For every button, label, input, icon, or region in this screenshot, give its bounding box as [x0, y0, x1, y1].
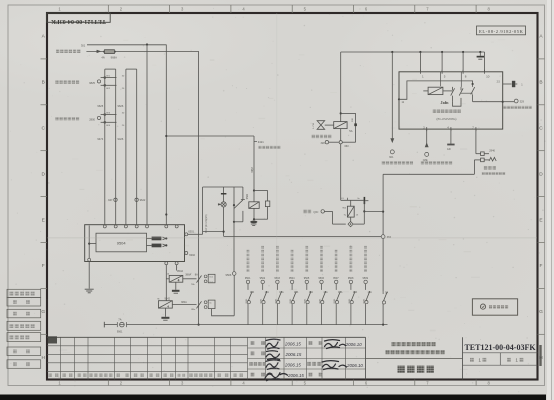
svg-text:2006.10: 2006.10 — [346, 363, 363, 368]
svg-text:9582: 9582 — [246, 193, 249, 199]
inspection stamp box — [472, 299, 517, 315]
company name box — [366, 337, 463, 379]
svg-text:3421: 3421 — [258, 140, 264, 144]
relay K1 contact with terminal box — [183, 274, 215, 286]
relay K3 coil (brake warning) — [246, 136, 259, 208]
svg-text:9561: 9561 — [261, 298, 263, 304]
terminal QZE with up arrow (program run signal) — [421, 129, 452, 164]
wire U2 pin7 to buzzer — [476, 129, 481, 154]
svg-text:QIC: QIC — [313, 210, 318, 214]
wire vigilance loop to terminal 362 riser — [363, 210, 383, 212]
U2 bottom pins 3 4 7 — [423, 125, 476, 131]
svg-text:D: D — [539, 171, 543, 177]
signature table grid — [248, 337, 366, 379]
svg-text:H: H — [41, 355, 45, 361]
inverted drawing-number box TET121-00-04-03FK top-left — [47, 13, 110, 25]
U2 right terminal plug — [497, 81, 524, 88]
node on left bus at brake branch — [165, 135, 167, 137]
svg-text:5A: 5A — [349, 129, 352, 133]
U2 contact link U-loop — [453, 98, 462, 106]
module U1 bottom pins — [165, 262, 178, 271]
door relay module U2 box — [399, 72, 503, 129]
connector terminals 947 / 9622 on wires — [108, 198, 146, 202]
svg-text:2006.15: 2006.15 — [287, 373, 304, 378]
emergency stop button ES1 with wire pair — [55, 69, 125, 225]
svg-text:G: G — [41, 309, 45, 315]
svg-text:9426: 9426 — [118, 137, 124, 141]
annunciator branch wiring — [203, 187, 243, 272]
svg-text:6825: 6825 — [89, 81, 95, 85]
svg-text:9474: 9474 — [97, 137, 103, 141]
svg-text:9561: 9561 — [319, 298, 321, 304]
svg-text:9561: 9561 — [246, 298, 248, 304]
svg-text:9504: 9504 — [117, 240, 127, 245]
wire lamp output to terminal 362 — [224, 235, 382, 237]
wire vertical from fuse line down through relay contacts to bus — [198, 51, 200, 325]
IC 9504 inner box — [96, 233, 147, 252]
switch bank S1-S9 with labels — [245, 246, 372, 325]
chassis ground hanging at bus end — [477, 51, 484, 59]
svg-text:C: C — [539, 126, 543, 132]
switch column S10 (5A) from terminal 362 — [382, 239, 388, 325]
svg-text:9561: 9561 — [334, 298, 336, 304]
wire 363 node down to vigilance relay — [340, 144, 342, 201]
emergency brake valve V1 with relay coil K5 — [312, 52, 357, 142]
signature table labels: design/check/chief/audit + process/standard/approve — [249, 341, 322, 376]
U2 contact b — [459, 72, 472, 96]
svg-text:G: G — [539, 309, 543, 315]
svg-text:2006.10: 2006.10 — [345, 342, 362, 347]
relay coil inside U2 — [423, 87, 452, 94]
svg-text:2800: 2800 — [89, 117, 95, 121]
node outputs to left bus — [165, 237, 167, 246]
svg-text:F: F — [42, 263, 45, 269]
svg-text:6302: 6302 — [189, 253, 195, 257]
ground below K3 — [250, 221, 257, 226]
svg-text:D: D — [41, 171, 45, 177]
svg-text:601: 601 — [389, 156, 394, 159]
wire 301 top feeder — [81, 43, 166, 47]
right margin dark streak — [539, 345, 541, 366]
wire codes 9625 9626 9474 9426 — [97, 104, 123, 141]
vigilance reset loop with diode D4 — [324, 201, 364, 227]
left margin table (borrow record, trace, check, old negative no., negative no., signature, date) — [7, 289, 41, 368]
wire brake-system branch 3421 — [166, 136, 280, 149]
safety logic module U1 outer box — [85, 225, 185, 262]
svg-text:3417 (2×1.5)(3/4): 3417 (2×1.5)(3/4) — [205, 214, 208, 233]
module U1 right pins 6301 6302 — [185, 230, 196, 257]
terminal 362 — [381, 235, 391, 239]
svg-text:Jafn: Jafn — [441, 100, 450, 105]
svg-text:E: E — [42, 217, 45, 223]
handwritten signatures and dates — [265, 339, 347, 381]
svg-text:9502: 9502 — [260, 277, 266, 280]
svg-text:329: 329 — [520, 100, 525, 104]
top margin column ticks and numbers — [58, 5, 490, 13]
svg-text:9507: 9507 — [333, 277, 339, 280]
emergency stop button ES2 with wire pair — [55, 69, 136, 225]
wire relay K2 contact to terminal 9506 riser — [212, 309, 235, 316]
node junction on wire 301 — [146, 43, 148, 45]
terminal 329 program system output — [503, 99, 532, 109]
svg-text:EL-08-2.9182-05K: EL-08-2.9182-05K — [479, 29, 524, 34]
wire vertical from 301 junction — [146, 45, 148, 226]
svg-text:(EL-0325/005a): (EL-0325/005a) — [437, 117, 457, 121]
terminal 328 and node 363 on valve return — [321, 141, 356, 149]
bottom return bus with fuse 7A — [104, 318, 387, 334]
svg-text:9561: 9561 — [305, 298, 307, 304]
svg-text:2946: 2946 — [489, 149, 495, 152]
svg-text:380A: 380A — [181, 301, 187, 304]
relay K2 contact with terminal box — [172, 300, 215, 309]
U2 contact c to output 329 — [471, 84, 504, 103]
module internal left rail with ground pin — [88, 226, 96, 262]
svg-text:7A: 7A — [118, 318, 121, 322]
fuse 4A 968A on emergency stop supply line — [56, 50, 199, 60]
scan artifact dark corner at table top-left — [48, 336, 58, 343]
left margin row ticks and letters — [41, 34, 48, 361]
capacitor stub GD — [447, 129, 455, 151]
top supply bus of door relay — [341, 51, 485, 53]
svg-text:9625: 9625 — [97, 104, 103, 108]
svg-text:9505: 9505 — [304, 277, 310, 280]
svg-text:C: C — [41, 126, 45, 132]
output driver blocks inside module — [147, 237, 166, 248]
svg-text:TET121-00-04-03FK: TET121-00-04-03FK — [464, 343, 536, 352]
svg-text:B: B — [42, 80, 45, 86]
relay K2 9540 coil — [157, 298, 196, 311]
svg-text:2006.15: 2006.15 — [284, 362, 301, 367]
svg-text:9503: 9503 — [274, 277, 280, 280]
change-record table grid (bottom left) — [47, 337, 366, 379]
svg-text:9506: 9506 — [226, 273, 232, 277]
ground below relay K2 — [161, 308, 169, 320]
resistor R1 parallel to K3 — [253, 191, 270, 221]
svg-text:9509: 9509 — [363, 277, 369, 280]
svg-text:9501: 9501 — [245, 277, 251, 280]
drawing number cell TET121-00-04-03FK — [463, 343, 538, 365]
svg-text:362: 362 — [387, 235, 392, 239]
svg-text:4: 4 — [178, 279, 180, 283]
U2 pin 11 with internal rail — [398, 81, 474, 104]
vigilance top branch with rail cap — [341, 197, 369, 204]
terminal 9506 — [226, 272, 236, 316]
bottom margin column ticks and numbers — [58, 380, 490, 386]
relay K1 9542 coil — [166, 265, 183, 301]
svg-text:9542: 9542 — [177, 269, 183, 273]
svg-text:9626: 9626 — [118, 104, 124, 108]
alarm lamp with cap bar — [218, 187, 226, 236]
svg-text:9542: 9542 — [165, 298, 171, 301]
node on left bus — [165, 213, 167, 215]
terminal 601 feeder with arrow — [382, 51, 413, 165]
svg-text:10: 10 — [486, 74, 490, 78]
svg-text:9561: 9561 — [364, 298, 366, 304]
svg-text:388A: 388A — [185, 274, 191, 277]
svg-text:F: F — [540, 263, 543, 269]
wire lamp return to pin rail — [203, 231, 225, 233]
right margin row ticks and letters — [538, 34, 545, 361]
svg-text:E: E — [539, 217, 542, 223]
svg-text:363: 363 — [344, 144, 349, 148]
U2 contact a — [441, 72, 455, 102]
driver vigilance button QIC terminal — [303, 210, 324, 214]
svg-text:GD: GD — [447, 148, 451, 151]
sheet count cells: total 1 page / page 1 — [470, 358, 523, 363]
svg-text:B: B — [539, 80, 542, 86]
wire valve node down to vigilance contact — [340, 129, 342, 141]
svg-text:1-734: 1-734 — [313, 122, 315, 128]
U2 designation text Jafn door relay — [433, 100, 461, 121]
svg-text:9561: 9561 — [349, 298, 351, 304]
reference box EL-08-2.9182-05K top-right — [477, 26, 526, 35]
svg-text:9561: 9561 — [117, 330, 123, 333]
buzzer BZ1 (program run indicator) — [481, 149, 505, 175]
svg-text:6301: 6301 — [188, 230, 194, 234]
svg-text:2006.15: 2006.15 — [285, 352, 302, 357]
svg-text:9506: 9506 — [318, 277, 324, 280]
svg-text:9504: 9504 — [289, 277, 295, 280]
svg-text:8A: 8A — [195, 274, 198, 277]
U2 pins 1 5 8 10 — [420, 52, 489, 78]
svg-text:9508: 9508 — [348, 277, 354, 280]
wire module pin 6301 to annunciator branch — [188, 187, 208, 234]
wire vertical main left bus — [165, 45, 167, 226]
relay K4 vigilance coil (vertical) — [342, 200, 359, 222]
svg-text:2006.15: 2006.15 — [284, 342, 301, 347]
svg-text:301: 301 — [81, 43, 86, 47]
auxiliary contact K7 — [234, 187, 245, 222]
svg-text:9622: 9622 — [140, 198, 146, 202]
svg-text:968A: 968A — [111, 55, 117, 59]
svg-text:328: 328 — [321, 142, 326, 145]
module U1 top pin terminals — [103, 225, 178, 228]
svg-text:9561: 9561 — [290, 298, 292, 304]
svg-text:TET121-00-04-03FK: TET121-00-04-03FK — [51, 18, 106, 25]
ground below relay K1 — [172, 282, 180, 293]
change-record header labels row — [49, 374, 243, 378]
ground below module — [85, 261, 94, 293]
buzzer return loop to vigilance line — [382, 160, 481, 235]
